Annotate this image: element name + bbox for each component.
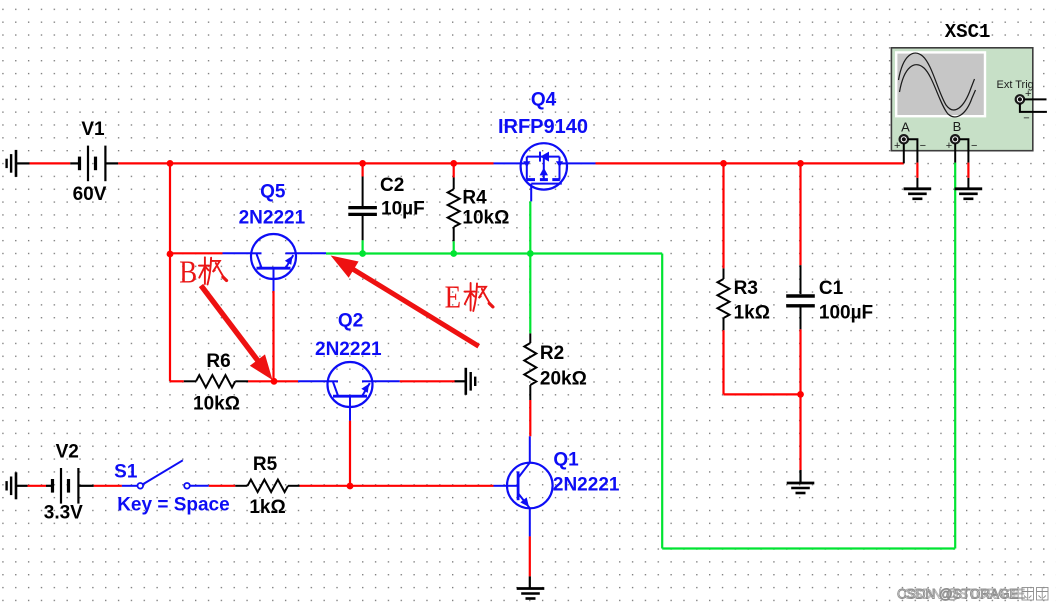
svg-text:20kΩ: 20kΩ (540, 368, 587, 389)
ground GND4 (Q1 emitter) (517, 576, 545, 598)
wire (blue lead) Q5 base (273, 279, 275, 291)
wire (red) scope A- segment (916, 163, 918, 178)
wire (red) R2 to Q1 collector (529, 400, 531, 436)
transistor Q2 2N2221 (298, 362, 372, 407)
node rail/R3 junction (720, 160, 727, 167)
watermark CSDN (897, 587, 1048, 602)
wire Ext Trig - stub (1020, 103, 1047, 112)
node green C2 junction (359, 250, 366, 257)
value 100uF (819, 303, 873, 324)
label R3 (734, 278, 758, 299)
value 60V (73, 184, 107, 205)
svg-text:10kΩ: 10kΩ (462, 207, 509, 228)
wire scope B+ down (954, 144, 956, 163)
node rail/Q5-branch junction (167, 160, 174, 167)
svg-text:10kΩ: 10kΩ (193, 393, 240, 414)
svg-text:+: + (946, 140, 952, 152)
wire (red) R3 down and right (724, 330, 801, 394)
label R4 (462, 188, 487, 209)
wire (red) scope B- segment (967, 163, 969, 178)
label B (953, 119, 962, 134)
wire (red) S1 to R5 (209, 485, 236, 487)
wire (blue lead) Q1 emitter (529, 508, 531, 536)
wire (red) left branch down to R6 (169, 163, 171, 381)
resistor R2 (524, 254, 536, 401)
wire (red) GND3 to V2 (28, 485, 47, 487)
ground GND6 (scope A) (904, 178, 932, 199)
node rail/C1 junction (797, 160, 804, 167)
svg-text:1kΩ: 1kΩ (249, 497, 285, 518)
label XSC1 (945, 21, 991, 43)
wire (red) node down to GND5 (799, 394, 801, 470)
svg-text:60V: 60V (73, 184, 107, 205)
label Q5 (260, 182, 286, 203)
wire scope A- bracket (908, 139, 918, 162)
label V1 (81, 119, 105, 140)
svg-text:C1: C1 (819, 278, 844, 299)
svg-text:V1: V1 (81, 119, 105, 140)
wire (red) top rail V1 to Q4 (118, 162, 493, 164)
label C2 (380, 175, 404, 196)
resistor R5 (235, 480, 299, 492)
svg-text:2N2221: 2N2221 (239, 207, 306, 228)
wire (blue lead) Q1 collector (529, 436, 531, 462)
svg-text:Q5: Q5 (260, 182, 286, 203)
svg-text:100µF: 100µF (819, 303, 873, 324)
node R3/C1 junction (797, 391, 804, 398)
wire (red) R6 to base node (248, 380, 274, 382)
ground GND2 (Q2 emitter) (455, 368, 476, 395)
value 3.3V (44, 502, 83, 523)
wire (red) collector stub to Q5 (170, 252, 223, 254)
svg-text:Q4: Q4 (531, 89, 557, 110)
label S1 (114, 462, 138, 483)
wire (red) V2 to S1 (94, 485, 122, 487)
value 1k R3 (734, 303, 770, 324)
ground GND3 (left of V2) (7, 472, 28, 499)
ground GND7 (scope B) (955, 178, 983, 199)
label Ext Trig (997, 79, 1034, 91)
value 2N2221 Q1 (553, 474, 620, 495)
svg-text:Key = Space: Key = Space (117, 495, 230, 516)
wire (red) corner to R6 (170, 380, 184, 382)
label A (901, 119, 910, 134)
wire (red) R5 to Q1 base (300, 485, 494, 487)
svg-text:B: B (953, 119, 962, 134)
wire (blue lead) Q2 base (349, 407, 351, 421)
svg-text:2N2221: 2N2221 (315, 339, 382, 360)
wire (red) rail down to C1 (799, 163, 801, 265)
svg-text:R6: R6 (206, 351, 230, 372)
oscilloscope XSC1 body (891, 48, 1032, 151)
wire (blue lead) Q5 emitter (296, 252, 326, 254)
svg-text:C2: C2 (380, 175, 404, 196)
annotation arrow to E wire (331, 256, 479, 347)
wire (green) loop bottom (662, 547, 955, 549)
node B junction (Q5 base/R6/Q2) (271, 378, 278, 385)
value 1k R5 (249, 497, 285, 518)
value IRFP9140 (498, 116, 588, 138)
svg-text:R2: R2 (540, 343, 564, 364)
svg-text:S1: S1 (114, 462, 138, 483)
svg-text:CSDN @STORAGE: CSDN @STORAGE (897, 587, 1018, 602)
node base junction Q1/Q2/R5 (347, 483, 354, 490)
svg-text:R3: R3 (734, 278, 758, 299)
battery V2 (46, 468, 94, 504)
wire (red) base node to Q2 (274, 380, 298, 382)
node rail/C2 junction (359, 160, 366, 167)
wire scope B- bracket (959, 139, 968, 162)
node green gate/R2 junction (527, 250, 534, 257)
wire (red) top rail Q4 to scope A (596, 162, 904, 164)
svg-text:2N2221: 2N2221 (553, 474, 620, 495)
node green R4 junction (450, 250, 457, 257)
value 10k R4 (462, 207, 509, 228)
svg-text:−: − (920, 140, 926, 152)
wire (green) loop up to scope B (954, 163, 956, 549)
svg-text:Q2: Q2 (338, 311, 363, 332)
annotation arrow to B node (201, 286, 273, 381)
svg-text:Q1: Q1 (553, 449, 579, 470)
node Q5 collector junction (167, 251, 174, 258)
resistor R6 (184, 375, 248, 387)
label C1 (819, 278, 844, 299)
svg-text:B: B (179, 255, 197, 290)
svg-text:XSC1: XSC1 (945, 21, 991, 43)
value 2N2221 Q2 (315, 339, 382, 360)
ground GND5 (R3/C1) (787, 470, 815, 493)
value 10uF (381, 199, 425, 220)
value 2N2221 Q5 (239, 207, 306, 228)
svg-text:3.3V: 3.3V (44, 502, 83, 523)
ground GND1 (left of V1) (7, 150, 30, 177)
svg-text:−: − (971, 140, 977, 152)
wire (blue lead) Q2 emitter (373, 380, 400, 382)
wire (red) Q5 base down (272, 291, 274, 381)
svg-text:R4: R4 (462, 188, 487, 209)
value 10k R6 (193, 393, 240, 414)
svg-text:E: E (445, 281, 461, 316)
label V2 (56, 442, 79, 463)
resistor R4 (448, 163, 460, 253)
wire (green) Q4 gate down (529, 201, 531, 253)
wire Ext Trig + stub (1024, 98, 1047, 100)
label R2 (540, 343, 564, 364)
capacitor C2 (348, 163, 377, 253)
switch S1 (122, 460, 209, 488)
wire (red) Q1 emitter down (529, 536, 531, 576)
wire scope A+ down to rail (903, 144, 905, 164)
svg-text:IRFP9140: IRFP9140 (498, 116, 588, 138)
label Q1 (553, 449, 579, 470)
terminal Ext Trig (1016, 88, 1032, 125)
wire (green) loop down (661, 254, 663, 549)
svg-text:1kΩ: 1kΩ (734, 303, 770, 324)
svg-text:10µF: 10µF (381, 199, 425, 220)
battery V1 (70, 146, 118, 182)
svg-text:R5: R5 (253, 454, 278, 475)
value 20k R2 (540, 368, 587, 389)
transistor Q5 2N2221 (223, 234, 297, 279)
annotation text B-pole (179, 255, 226, 290)
label Key = Space (117, 495, 230, 516)
svg-text:+: + (894, 140, 900, 152)
svg-text:A: A (901, 119, 910, 134)
transistor Q1 2N2221 (494, 463, 553, 509)
wire (red) Q2 emitter to ground (400, 380, 455, 382)
resistor R3 (718, 268, 730, 330)
wire (green) emitter rail (326, 252, 662, 254)
terminal A (894, 135, 926, 152)
svg-text:+: + (1025, 88, 1031, 100)
transistor Q4 IRFP9140 (494, 143, 596, 201)
svg-text:−: − (1023, 113, 1029, 125)
wire (red) C1 down to node (799, 329, 801, 394)
oscilloscope screen (896, 52, 985, 116)
label Q2 (338, 311, 363, 332)
wire (red) GND1 to V1 (30, 162, 71, 164)
capacitor C1 (786, 265, 815, 329)
wire (red) Q2 base down (349, 421, 351, 486)
svg-text:V2: V2 (56, 442, 79, 463)
label Q4 (531, 89, 557, 110)
node rail/R4 junction (450, 160, 457, 167)
label R6 (206, 351, 230, 372)
annotation text E-pole (445, 281, 493, 316)
wire (red) rail down to R3 (722, 163, 724, 268)
terminal B (946, 135, 978, 152)
label R5 (253, 454, 278, 475)
